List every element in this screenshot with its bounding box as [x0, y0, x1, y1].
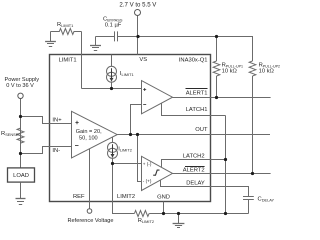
node comparator U2 - junction on OUT: [129, 133, 132, 136]
op-amp + mark: [75, 121, 78, 124]
wire LATCH1: [162, 103, 226, 115]
svg-text:10 kΩ: 10 kΩ: [259, 69, 275, 75]
wire LIMIT2 drop: [113, 164, 135, 214]
svg-text:RSENSE: RSENSE: [1, 131, 19, 137]
svg-text:CBYPASS: CBYPASS: [103, 17, 123, 23]
svg-text:Power Supply: Power Supply: [5, 77, 40, 83]
svg-text:DELAY: DELAY: [186, 181, 205, 187]
resistor RLIMIT2: [134, 211, 149, 217]
svg-text:ILIMIT2: ILIMIT2: [118, 147, 132, 153]
svg-text:2.7 V to 5.5 V: 2.7 V to 5.5 V: [119, 2, 157, 9]
wire IN+ route: [21, 117, 72, 124]
wire LIMIT1 drop into box: [81, 32, 83, 89]
wire ALERT2: [173, 173, 271, 175]
resistor RLIMIT1: [51, 29, 82, 35]
wire bottom ground rail: [149, 213, 248, 215]
wire LATCH2: [162, 160, 226, 167]
current source ILIMIT2: [108, 137, 118, 163]
svg-text:RLIMIT2: RLIMIT2: [138, 218, 154, 224]
pull-up resistor RPULL-UP2: [249, 61, 256, 174]
svg-text:Gain = 20,: Gain = 20,: [76, 129, 102, 135]
node ALERT2 pullup junction: [251, 172, 254, 175]
svg-text:RLIMIT1: RLIMIT1: [57, 22, 73, 28]
wire ground stem (rail): [178, 214, 180, 224]
LOAD box: [8, 168, 35, 182]
wire supply stem VS: [137, 15, 139, 54]
wire LOAD ground stem: [20, 182, 22, 199]
svg-text:LIMIT1: LIMIT1: [59, 57, 77, 63]
wire comparator U2 - input: [131, 105, 142, 135]
node ILIMIT1 junction: [110, 87, 113, 90]
IC box INA30x-Q1: [50, 55, 211, 202]
svg-text:LATCH1: LATCH1: [186, 107, 208, 113]
wire CDELAY bottom stub: [248, 200, 250, 214]
wire comparator U3 lower input from OUT: [138, 135, 142, 182]
svg-text:+ (-): + (-): [143, 162, 152, 167]
svg-text:- (+): - (+): [143, 179, 152, 184]
ground (LOAD): [16, 199, 26, 205]
svg-text:ALERT1: ALERT1: [186, 91, 208, 97]
op-amp gain stage: [72, 111, 118, 158]
svg-text:OUT: OUT: [195, 127, 208, 133]
terminal supply 2.7-5.5V: [135, 10, 141, 16]
node GND pin junction: [162, 212, 165, 215]
node VS rail junction: [136, 35, 139, 38]
wire REF drop: [89, 149, 91, 209]
wire IN- route: [21, 147, 72, 154]
wire comparator U3 upper input from ILIMIT2: [113, 163, 142, 165]
svg-text:ALERT2: ALERT2: [183, 168, 205, 174]
node LATCH2 junction: [224, 158, 227, 161]
svg-text:IN+: IN+: [52, 117, 62, 123]
svg-text:CDELAY: CDELAY: [258, 197, 275, 203]
comparator U2 + mark: [143, 88, 146, 91]
wire ALERT1: [173, 97, 271, 99]
svg-text:INA30x-Q1: INA30x-Q1: [179, 58, 208, 64]
wire supply rail left of cap: [96, 36, 115, 38]
svg-text:LATCH2: LATCH2: [183, 154, 205, 160]
current source ILIMIT1: [107, 55, 117, 89]
node LATCH tie ground junction: [224, 212, 227, 215]
comparator U2 - mark: [143, 104, 146, 106]
node RPULL-UP1 rail junction: [215, 35, 218, 38]
pull-up resistor RPULL-UP1: [213, 37, 220, 98]
svg-text:0 V to 36 V: 0 V to 36 V: [6, 83, 34, 89]
op-amp - mark: [75, 145, 79, 147]
node ALERT1 pullup junction: [215, 96, 218, 99]
resistor RSENSE: [17, 128, 24, 143]
svg-text:50, 100: 50, 100: [79, 136, 98, 142]
overline ALERT2: [185, 166, 205, 168]
wire CBYPASS ground stem: [95, 37, 97, 46]
svg-text:ILIMIT1: ILIMIT1: [120, 71, 134, 77]
svg-text:RPULL-UP1: RPULL-UP1: [222, 62, 243, 68]
node comparator U3 input junction on OUT: [136, 133, 139, 136]
node ILIMIT2 junction: [111, 162, 114, 165]
wire OUT: [117, 134, 270, 136]
wire LIMIT1 node to comparator U2 +: [82, 88, 142, 90]
terminal reference voltage: [87, 209, 92, 214]
overline ALERT1: [186, 88, 208, 90]
comparator U3 window (ALERT2): [142, 156, 173, 190]
wire RLIMIT1 ground stem: [50, 32, 52, 42]
svg-text:RPULL-UP2: RPULL-UP2: [259, 62, 280, 68]
svg-text:0.1 µF: 0.1 µF: [105, 23, 122, 29]
wire LATCH tie vertical: [225, 116, 227, 214]
comparator U2 (ALERT1): [142, 81, 173, 114]
ground (rail): [173, 224, 185, 228]
terminal power supply: [18, 93, 23, 98]
svg-text:VS: VS: [139, 57, 147, 63]
svg-text:LIMIT2: LIMIT2: [117, 194, 135, 200]
svg-text:10 kΩ: 10 kΩ: [222, 69, 238, 75]
capacitor CDELAY: [243, 196, 254, 198]
svg-text:Reference Voltage: Reference Voltage: [68, 218, 114, 224]
wire GND pin drop: [163, 202, 165, 214]
svg-text:REF: REF: [73, 194, 85, 200]
capacitor CBYPASS: [114, 31, 116, 41]
node ground rail junction: [177, 212, 180, 215]
wire DELAY: [161, 180, 249, 196]
svg-text:IN-: IN-: [52, 148, 60, 154]
node RSENSE bottom junction: [19, 152, 22, 155]
svg-text:LOAD: LOAD: [13, 173, 29, 179]
wire supply left vertical: [20, 99, 22, 168]
svg-text:GND: GND: [157, 195, 170, 201]
node RSENSE top junction: [19, 115, 22, 118]
wire rail right segment to RPULL-UP2: [118, 37, 253, 62]
ground (CBYPASS): [90, 46, 101, 51]
hysteresis symbol: [153, 170, 159, 175]
ground (RLIMIT1): [45, 42, 56, 47]
